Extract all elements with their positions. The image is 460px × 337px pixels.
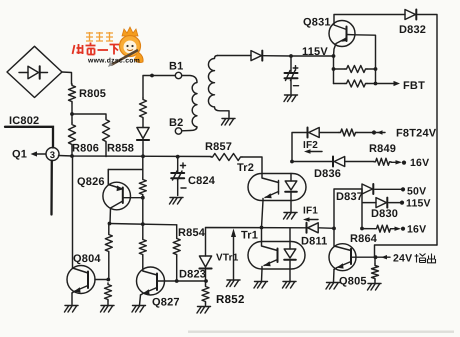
svg-text:IF2: IF2: [303, 140, 318, 151]
resistor (lower divider): [105, 283, 112, 305]
resistor (F8T24V series): [339, 129, 385, 136]
svg-text:3: 3: [50, 150, 55, 161]
svg-text:D836: D836: [314, 168, 341, 180]
wire: [262, 269, 291, 281]
wire: [290, 160, 333, 164]
node Q1 output: [12, 149, 46, 161]
transformer secondary winding: [208, 56, 229, 118]
resistor R852: [202, 281, 245, 306]
svg-text:R852: R852: [216, 294, 245, 306]
resistor (divider): [139, 156, 146, 197]
decorative scan bar (not labeled component): [188, 331, 454, 333]
svg-text:R858: R858: [107, 143, 134, 155]
svg-text:VTr1: VTr1: [216, 253, 239, 264]
terminal B1: [169, 61, 183, 79]
resistor (Q831 bias top): [332, 56, 378, 73]
svg-text:Q804: Q804: [73, 253, 101, 265]
wire: [334, 15, 405, 24]
ground: [284, 213, 298, 220]
label IF2 current arrow: [303, 140, 322, 154]
transistor Q831: [303, 17, 376, 70]
ground: [227, 280, 241, 287]
ground: [132, 306, 146, 313]
diode (IF2 branch): [308, 128, 340, 138]
label IF1 current arrow: [303, 206, 318, 222]
ground: [222, 119, 236, 126]
capacitor (115V filter): [285, 56, 299, 94]
resistor R858: [103, 118, 135, 157]
resistor R805: [69, 84, 107, 103]
svg-text:Q805: Q805: [339, 276, 367, 288]
bridge rectifier diode: [7, 46, 62, 97]
svg-text:Tr2: Tr2: [237, 162, 254, 174]
node 16V output: [392, 224, 426, 236]
diode (115V rectifier): [251, 51, 291, 61]
resistor (unlabeled, B1 branch): [140, 98, 147, 119]
svg-text:24V: 24V: [393, 253, 412, 265]
wire stub: [50, 161, 53, 215]
resistor R854: [173, 225, 206, 281]
ground: [65, 306, 79, 313]
resistor (emitter load): [105, 224, 112, 282]
svg-text:R849: R849: [369, 143, 396, 155]
svg-text:Q1: Q1: [12, 149, 27, 161]
svg-text:D823: D823: [179, 269, 206, 281]
terminal B2: [169, 117, 183, 134]
transformer primary winding (B1-B2): [182, 76, 197, 131]
resistor (Q827 collector, unlabeled): [139, 198, 146, 267]
watermark logo dzsc: [73, 27, 144, 67]
resistor R849: [369, 143, 396, 165]
svg-text:Q826: Q826: [77, 176, 105, 188]
node junction R805-R806: [70, 103, 74, 123]
transistor Q804: [67, 156, 108, 305]
wire: [362, 189, 376, 229]
diode (unlabeled, B1 branch): [137, 119, 149, 156]
ground: [326, 283, 340, 290]
wire: [62, 72, 72, 84]
wire: [72, 114, 106, 118]
indicator VTr1 arrow: [216, 229, 239, 280]
wire: [108, 222, 177, 226]
label 24V output: [393, 253, 436, 265]
svg-text:C824: C824: [188, 175, 216, 187]
diode D830: [371, 198, 400, 220]
diode D823: [179, 256, 212, 281]
node 115V: [289, 46, 335, 58]
transistor Q805: [329, 228, 376, 287]
svg-text:R806: R806: [72, 143, 99, 155]
ground: [283, 282, 297, 289]
wire: [290, 201, 292, 213]
wire: [375, 245, 438, 257]
svg-text:FBT: FBT: [403, 80, 425, 92]
ground: [254, 282, 268, 289]
wire right bus: [418, 15, 438, 246]
optocoupler Tr2: [237, 162, 306, 201]
svg-text:115V: 115V: [406, 198, 431, 210]
wire: [218, 55, 252, 57]
svg-text:IF1: IF1: [303, 206, 318, 217]
IC802: [5, 115, 53, 148]
node / wire (50V column): [332, 189, 362, 230]
svg-text:Q831: Q831: [303, 17, 331, 29]
wire: [262, 201, 264, 228]
svg-text:R857: R857: [205, 141, 232, 153]
resistor R857: [205, 141, 242, 161]
wire: [242, 157, 262, 174]
diode D811: [301, 223, 334, 248]
svg-text:D830: D830: [371, 208, 398, 220]
svg-text:50V: 50V: [407, 186, 426, 198]
wire B1 branch: [143, 74, 175, 98]
ground: [197, 307, 211, 314]
transistor Q827: [137, 267, 180, 309]
svg-text:F8T24V: F8T24V: [396, 128, 437, 140]
svg-text:www.dzsc.com: www.dzsc.com: [87, 58, 140, 65]
diode D832: [399, 10, 426, 37]
svg-text:B2: B2: [169, 117, 183, 129]
wire: [108, 170, 143, 185]
capacitor C824: [170, 155, 216, 204]
diode D836: [314, 157, 374, 181]
svg-text:D832: D832: [399, 24, 426, 36]
svg-text:Q827: Q827: [152, 297, 180, 309]
ground: [284, 95, 298, 102]
node pin 3: [46, 148, 59, 161]
node 24V detect output: [374, 255, 390, 259]
svg-text:R854: R854: [178, 227, 206, 239]
svg-text:R864: R864: [350, 233, 378, 245]
svg-text:D811: D811: [301, 236, 328, 248]
ground: [101, 306, 115, 313]
wire: [165, 279, 208, 283]
resistor (24V sense): [372, 257, 379, 283]
svg-text:D837: D837: [336, 191, 363, 203]
wire main rail: [59, 154, 212, 158]
svg-text:IC802: IC802: [9, 115, 39, 127]
node 50V output: [401, 186, 426, 198]
resistor R864: [350, 225, 392, 245]
wire: [292, 133, 308, 162]
diode D837: [336, 184, 401, 203]
resistor (Q831 bias bottom): [334, 69, 378, 87]
optocoupler Tr1: [248, 228, 305, 270]
ground: [368, 284, 382, 291]
svg-text:B1: B1: [169, 61, 183, 73]
node 115V output: [400, 198, 431, 210]
transistor Q826: [77, 170, 131, 224]
wire: [131, 196, 145, 200]
svg-text:Tr1: Tr1: [241, 230, 258, 242]
svg-text:16V: 16V: [407, 224, 426, 236]
svg-text:16V: 16V: [410, 157, 429, 169]
node 16V output: [391, 157, 429, 169]
resistor R806: [69, 123, 100, 156]
wire middle row: [206, 226, 307, 256]
svg-text:R805: R805: [79, 88, 106, 100]
node FBT output: [376, 80, 426, 92]
